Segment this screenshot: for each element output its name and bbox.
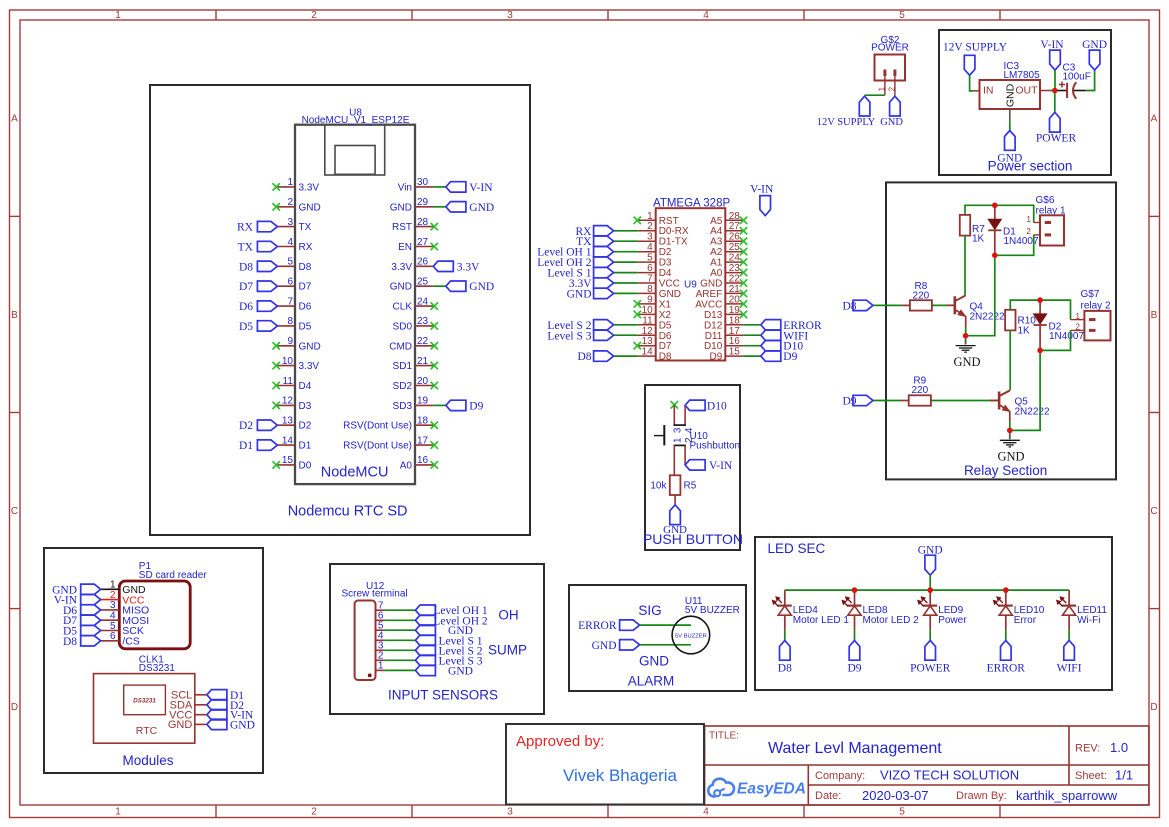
svg-text:1N4007: 1N4007 — [1049, 331, 1084, 342]
svg-text:LM7805: LM7805 — [1004, 70, 1041, 81]
svg-text:2: 2 — [647, 221, 653, 232]
svg-text:1: 1 — [115, 10, 121, 21]
diode D1 1N4007 — [988, 205, 1039, 255]
svg-text:EN: EN — [398, 242, 412, 253]
svg-text:Vivek Bhageria: Vivek Bhageria — [563, 766, 678, 785]
svg-text:3.3V: 3.3V — [299, 361, 320, 372]
resistor R8 220 — [902, 281, 932, 311]
U9 pin 1 RST — [638, 211, 679, 227]
approved by box — [506, 724, 704, 805]
U8 pin 15 D0 — [277, 455, 311, 471]
svg-text:PUSH BUTTON: PUSH BUTTON — [643, 531, 743, 547]
no-connect U9 pin 27 — [740, 227, 747, 234]
svg-text:17: 17 — [729, 326, 741, 337]
svg-text:GND: GND — [1082, 39, 1107, 51]
svg-text:GND: GND — [700, 279, 722, 290]
net flag WIFI (U9 pin 17) — [761, 330, 809, 342]
svg-text:GND: GND — [639, 653, 669, 668]
svg-text:SD2: SD2 — [393, 381, 413, 392]
svg-text:Nodemcu RTC SD: Nodemcu RTC SD — [288, 504, 408, 520]
section box LED SEC — [755, 537, 1112, 690]
wire U12 pin 1 — [384, 669, 415, 671]
svg-text:GND: GND — [448, 665, 473, 677]
svg-text:D9: D9 — [469, 400, 483, 412]
net flag GND (CLK1 GND) — [207, 719, 255, 731]
transistor Q4 2N2222 — [955, 296, 1005, 323]
svg-text:RSV(Dont Use): RSV(Dont Use) — [343, 421, 412, 432]
wire U9 pin 15 — [743, 355, 761, 357]
svg-text:5: 5 — [647, 253, 653, 264]
svg-text:CMD: CMD — [389, 341, 412, 352]
svg-text:2: 2 — [1076, 323, 1081, 332]
no-connect U10 pin 3 — [671, 401, 678, 408]
caption ALARM — [628, 674, 675, 689]
svg-text:R5: R5 — [684, 480, 697, 491]
wire U12 pin 3 — [384, 649, 415, 651]
svg-text:D7: D7 — [299, 282, 312, 293]
junction Q5 emitter node — [1007, 428, 1013, 434]
svg-text:13: 13 — [282, 416, 294, 427]
U9 pin 13 D7 — [638, 336, 672, 352]
svg-text:GND: GND — [997, 450, 1024, 464]
svg-text:AREF: AREF — [696, 289, 723, 300]
svg-text:GND: GND — [168, 719, 193, 731]
net port GND (push button) — [663, 505, 687, 536]
wire R7 to Q4 collector — [964, 236, 967, 296]
svg-text:Motor LED 2: Motor LED 2 — [863, 615, 920, 626]
svg-text:28: 28 — [417, 217, 429, 228]
wire U8 pin 30 — [433, 186, 446, 188]
svg-text:Level S 3: Level S 3 — [547, 330, 591, 342]
svg-text:D8: D8 — [659, 352, 672, 363]
svg-text:RST: RST — [659, 216, 679, 227]
U8 pin 19 SD3 — [393, 396, 434, 412]
svg-text:2: 2 — [287, 197, 293, 208]
svg-text:1: 1 — [1027, 215, 1032, 224]
svg-text:11: 11 — [283, 376, 294, 387]
no-connect U9 pin 19 — [740, 311, 747, 318]
svg-text:100uF: 100uF — [1063, 72, 1091, 83]
svg-text:VCC: VCC — [659, 279, 680, 290]
wire U9 pin 6 — [614, 272, 638, 274]
net flag RX (U9 pin 2) — [576, 226, 614, 238]
svg-text:GND: GND — [299, 341, 321, 352]
label SIG — [638, 603, 661, 618]
U8 pin 8 D5 — [277, 316, 311, 332]
U8 pin 11 D4 — [277, 376, 311, 392]
U9 pin 26 A3 — [710, 232, 743, 248]
svg-text:D10: D10 — [704, 341, 723, 352]
wire relay2 top node — [1010, 300, 1070, 320]
net flag GND (P1 pin 1) — [52, 584, 101, 596]
net flag D8 (U9 pin 14) — [577, 351, 613, 363]
net flag Level OH 2 (U9 pin 5) — [537, 257, 613, 269]
ground symbol (Q4 emitter) — [953, 336, 980, 369]
svg-text:2: 2 — [1027, 227, 1032, 236]
U9 pin 10 X2 — [638, 305, 672, 321]
svg-text:9: 9 — [287, 336, 293, 347]
wire U8 pin 19 — [433, 404, 446, 406]
resistor R5 10k — [650, 475, 696, 505]
svg-text:1: 1 — [673, 437, 684, 443]
U9 pin 17 D11 — [705, 326, 744, 342]
svg-text:15: 15 — [282, 455, 294, 466]
section box Modules — [44, 548, 263, 773]
svg-text:D5: D5 — [239, 321, 253, 333]
diode D2 1N4007 — [1034, 300, 1085, 350]
svg-text:SD0: SD0 — [393, 321, 413, 332]
svg-text:1: 1 — [647, 211, 653, 222]
svg-text:LED SEC: LED SEC — [768, 541, 826, 556]
U12 pin 6 — [376, 611, 385, 622]
svg-text:D9: D9 — [842, 396, 856, 408]
net flag V-IN (P1 pin 2) — [54, 594, 101, 606]
svg-text:A: A — [1151, 114, 1158, 125]
net flag ERROR (led) — [987, 640, 1026, 674]
P1 pin 5 SCK — [101, 621, 144, 637]
net flag Level OH 1 (U9 pin 4) — [537, 247, 613, 259]
screw terminal U12 — [342, 581, 408, 680]
wire IC3 OUT node — [1050, 90, 1055, 92]
no-connect U9 pin 13 — [634, 342, 641, 349]
svg-text:B: B — [11, 310, 18, 321]
wire LED9 to flag — [929, 630, 931, 640]
wire LED4 to flag — [784, 630, 786, 640]
junction led bus — [927, 587, 933, 593]
svg-text:8: 8 — [647, 284, 653, 295]
svg-text:28: 28 — [729, 211, 741, 222]
net flag D9 (led) — [847, 640, 861, 674]
U8 pin 13 D2 — [277, 416, 311, 432]
no-connect U9 pin 9 — [634, 300, 641, 307]
svg-text:D1-TX: D1-TX — [659, 237, 688, 248]
svg-text:A0: A0 — [400, 460, 413, 471]
net port V-IN (floating above U9) — [750, 184, 774, 216]
wire relay1 top node — [965, 205, 1034, 222]
net flag Level OH 1 (U12 pin 7) — [415, 605, 487, 617]
svg-text:D8: D8 — [577, 351, 591, 363]
svg-text:23: 23 — [417, 316, 429, 327]
no-connect U8 pin 1 — [273, 183, 280, 190]
net flag V-IN (CLK1 VCC) — [207, 710, 254, 722]
svg-text:26: 26 — [417, 257, 429, 268]
section box Nodemcu RTC SD — [150, 85, 530, 535]
svg-text:D4: D4 — [659, 268, 672, 279]
net flag RX (U8 pin 3) — [237, 221, 277, 233]
svg-text:1.0: 1.0 — [1110, 740, 1128, 755]
svg-text:TX: TX — [238, 242, 254, 254]
wire 12V SUPPLY to IC3 IN — [970, 75, 973, 91]
net flag D5 (P1 pin 5) — [63, 625, 101, 637]
U9 pin 3 D1-TX — [638, 232, 688, 248]
net flag TX (U8 pin 4) — [238, 241, 278, 253]
U9 pin 18 D12 — [704, 315, 743, 331]
svg-text:D0: D0 — [299, 460, 312, 471]
net flag Level S 1 (U12 pin 4) — [415, 635, 482, 647]
U8 pin 12 D3 — [277, 396, 311, 412]
net port GND (G$2 pin 2) — [880, 96, 903, 128]
wire U9 pin 16 — [743, 345, 761, 347]
svg-text:GND: GND — [469, 202, 494, 214]
net flag Level OH 2 (U12 pin 6) — [415, 615, 487, 627]
net flag GND (U12 pin 5) — [415, 625, 473, 637]
svg-text:karthik_sparroww: karthik_sparroww — [1016, 788, 1118, 803]
svg-text:3: 3 — [647, 232, 653, 243]
svg-text:DS3231: DS3231 — [139, 663, 176, 674]
no-connect U9 pin 24 — [740, 258, 747, 265]
U9 pin 15 D9 — [710, 347, 744, 363]
wire Q4 emitter — [965, 316, 967, 336]
svg-text:SUMP: SUMP — [488, 643, 527, 658]
net port V-IN (power section) — [1040, 39, 1064, 70]
U8 pin 28 RST — [392, 217, 433, 233]
svg-text:10: 10 — [642, 305, 654, 316]
wire Q4 base to R8 — [932, 304, 955, 306]
svg-text:POWER: POWER — [871, 43, 909, 54]
net flag GND (U9 pin 8) — [567, 288, 614, 300]
junction led bus — [1003, 587, 1009, 593]
net port 12V SUPPLY (power section) — [943, 42, 1008, 76]
svg-text:1: 1 — [287, 177, 293, 188]
svg-text:D9: D9 — [783, 351, 797, 363]
net port 12V SUPPLY — [817, 96, 876, 128]
net flag GND (U8 pin 29) — [446, 202, 494, 214]
wire D1 bottom to Q4 emitter node — [966, 255, 995, 335]
svg-text:D9: D9 — [710, 352, 723, 363]
svg-text:Approved by:: Approved by: — [516, 733, 604, 750]
net flag D8 (U8 pin 5) — [239, 261, 277, 273]
net port GND (led sec) — [918, 545, 943, 576]
no-connect U8 pin 2 — [273, 203, 280, 210]
svg-text:A0: A0 — [710, 268, 723, 279]
svg-text:1K: 1K — [972, 234, 985, 245]
U9 pin 14 D8 — [638, 347, 672, 363]
svg-text:REV:: REV: — [1075, 742, 1100, 754]
svg-text:GND: GND — [1005, 83, 1017, 107]
no-connect U8 pin 18 — [431, 422, 438, 429]
svg-text:Wi-Fi: Wi-Fi — [1077, 615, 1100, 626]
U9 pin 6 D4 — [638, 263, 672, 279]
IC U9 ATMEGA 328P — [653, 198, 730, 361]
net flag WIFI (led) — [1057, 640, 1082, 674]
svg-text:V-IN: V-IN — [469, 182, 493, 194]
label GND (alarm) — [639, 653, 669, 668]
svg-text:Drawn By:: Drawn By: — [956, 790, 1007, 802]
svg-text:X1: X1 — [659, 299, 672, 310]
svg-text:5V BUZZER: 5V BUZZER — [685, 605, 740, 616]
svg-text:INPUT SENSORS: INPUT SENSORS — [388, 688, 498, 703]
net flag D2 (CLK1 SDA) — [207, 700, 244, 712]
svg-text:D7: D7 — [659, 341, 672, 352]
wire U12 pin 4 — [384, 639, 415, 641]
wire U9 pin 4 — [614, 251, 638, 253]
svg-text:2: 2 — [311, 10, 317, 21]
svg-text:Date:: Date: — [815, 790, 841, 802]
caption Relay Section — [964, 463, 1047, 478]
svg-text:Pushbutton: Pushbutton — [690, 440, 741, 451]
no-connect U9 pin 23 — [740, 269, 747, 276]
svg-text:Motor LED 1: Motor LED 1 — [793, 615, 850, 626]
no-connect U8 pin 9 — [273, 342, 280, 349]
svg-text:D7: D7 — [239, 281, 253, 293]
U9 pin 20 AVCC — [695, 294, 743, 310]
net flag GND (U8 pin 25) — [446, 281, 494, 293]
svg-text:24: 24 — [729, 253, 741, 264]
U8 pin 4 RX — [277, 237, 312, 253]
svg-text:5V BUZZER: 5V BUZZER — [675, 633, 707, 639]
svg-text:7: 7 — [647, 274, 653, 285]
junction Q4 emitter node — [963, 333, 969, 339]
U8 pin 3 TX — [277, 217, 311, 233]
net flag V-IN (U10 pin 2) — [685, 460, 733, 472]
svg-text:11: 11 — [642, 315, 653, 326]
svg-text:Vin: Vin — [398, 182, 412, 193]
net flag D2 (U8 pin 13) — [239, 420, 277, 432]
junction D2 bottom — [1037, 348, 1043, 354]
wire GND to buzzer — [640, 644, 691, 646]
svg-text:D8: D8 — [778, 663, 792, 675]
U9 pin 25 A2 — [710, 242, 743, 258]
svg-text:12: 12 — [282, 396, 294, 407]
svg-text:D11: D11 — [705, 331, 723, 342]
caption Power section — [988, 159, 1073, 174]
U8 pin 10 3.3V — [277, 356, 319, 372]
svg-text:1: 1 — [115, 806, 121, 817]
svg-text:GND: GND — [230, 719, 255, 731]
svg-text:GND: GND — [592, 640, 617, 652]
no-connect U8 pin 10 — [273, 362, 280, 369]
section box Power section — [939, 30, 1111, 175]
svg-text:NodeMCU_V1_ESP12E: NodeMCU_V1_ESP12E — [302, 115, 410, 126]
svg-text:D6: D6 — [299, 302, 312, 313]
svg-text:RTC: RTC — [136, 725, 158, 737]
net flag ERROR (buzzer) — [578, 620, 639, 632]
net flag D9 (U9 pin 15) — [761, 351, 798, 363]
svg-text:D5: D5 — [659, 320, 672, 331]
svg-text:VIZO TECH SOLUTION: VIZO TECH SOLUTION — [880, 768, 1019, 783]
junction D1 top — [992, 203, 998, 209]
svg-text:RX: RX — [299, 242, 313, 253]
wire OUT node to POWER — [1054, 91, 1056, 113]
U9 pin 8 GND — [638, 284, 681, 300]
no-connect U8 pin 23 — [431, 322, 438, 329]
svg-text:GND: GND — [880, 117, 903, 128]
svg-text:GND: GND — [390, 282, 412, 293]
U8 pin 23 SD0 — [393, 316, 434, 332]
svg-text:D8: D8 — [239, 261, 253, 273]
svg-text:17: 17 — [417, 435, 429, 446]
U8 pin 1 3.3V — [277, 177, 319, 193]
regulator IC3 LM7805 — [973, 61, 1050, 120]
U8 pin 30 Vin — [398, 177, 434, 193]
caption INPUT SENSORS — [388, 688, 498, 703]
net flag POWER (led) — [910, 640, 951, 674]
svg-text:GND: GND — [659, 289, 681, 300]
wire D2 bottom to relay2 pin 2 — [1040, 330, 1070, 350]
svg-text:D2: D2 — [659, 247, 672, 258]
svg-text:Error: Error — [1014, 615, 1037, 626]
wire U9 pin 5 — [614, 261, 638, 263]
svg-text:C: C — [1150, 506, 1157, 517]
U8 pin 27 EN — [398, 237, 433, 253]
wire U12 pin 5 — [384, 629, 415, 631]
U8 pin 9 GND — [277, 336, 320, 352]
transistor Q5 2N2222 — [999, 390, 1050, 417]
svg-text:1/1: 1/1 — [1115, 768, 1133, 783]
label LED SEC — [768, 541, 826, 556]
CLK1 pin SDA — [170, 700, 207, 712]
svg-text:D: D — [1150, 702, 1157, 713]
svg-text:12: 12 — [642, 326, 654, 337]
svg-text:TITLE:: TITLE: — [709, 731, 739, 742]
U8 pin 7 D6 — [277, 296, 311, 312]
svg-text:220: 220 — [913, 290, 930, 301]
svg-text:6: 6 — [287, 277, 293, 288]
no-connect U8 pin 20 — [431, 382, 438, 389]
net flag D6 (P1 pin 3) — [63, 605, 101, 617]
svg-text:8: 8 — [287, 316, 293, 327]
svg-text:Power section: Power section — [988, 159, 1073, 174]
U9 pin 21 AREF — [696, 284, 744, 300]
svg-text:16: 16 — [729, 336, 741, 347]
svg-text:27: 27 — [417, 237, 429, 248]
svg-text:D9: D9 — [847, 663, 861, 675]
svg-text:12V SUPPLY: 12V SUPPLY — [817, 117, 876, 128]
svg-text:D3: D3 — [299, 401, 312, 412]
svg-text:GND: GND — [299, 202, 321, 213]
svg-text:18: 18 — [417, 416, 429, 427]
no-connect U8 pin 22 — [431, 342, 438, 349]
relay G$7 relay 2 — [1071, 289, 1111, 340]
P1 pin 1 GND — [101, 580, 146, 596]
svg-text:2: 2 — [888, 86, 897, 91]
section box PUSH BUTTON — [645, 385, 740, 550]
U8 pin 2 GND — [277, 197, 320, 213]
svg-text:2: 2 — [311, 806, 317, 817]
svg-text:5: 5 — [287, 257, 293, 268]
wire IC3 GND pin — [1009, 120, 1011, 130]
svg-text:D5: D5 — [299, 321, 312, 332]
no-connect U8 pin 28 — [431, 223, 438, 230]
svg-text:7: 7 — [287, 296, 293, 307]
net flag D8 (relay1 input) — [842, 300, 873, 312]
label NodeMCU — [321, 464, 389, 480]
U12 pin 4 — [376, 631, 385, 642]
svg-text:GND: GND — [469, 281, 494, 293]
svg-text:3: 3 — [507, 806, 513, 817]
svg-text:25: 25 — [417, 277, 429, 288]
U12 pin 1 — [376, 661, 385, 672]
svg-text:WIFI: WIFI — [1057, 663, 1082, 675]
relay G$6 relay 1 — [1027, 195, 1066, 245]
svg-text:23: 23 — [729, 263, 741, 274]
wire G$2 pin 1 to 12V SUPPLY — [865, 94, 885, 96]
caption Nodemcu RTC SD — [288, 504, 408, 520]
no-connect U9 pin 21 — [740, 290, 747, 297]
U8 pin 22 CMD — [389, 336, 433, 352]
svg-text:SD3: SD3 — [393, 401, 413, 412]
label OH — [498, 608, 518, 623]
U8 pin 17 RSV(Dont Use) — [343, 435, 433, 451]
P1 pin 2 VCC — [101, 590, 145, 606]
U8 pin 6 D7 — [277, 277, 311, 293]
svg-text:3.3V: 3.3V — [457, 261, 480, 273]
U9 pin 28 A5 — [710, 211, 743, 227]
svg-text:IN: IN — [983, 85, 994, 97]
wire V-IN to OUT node — [1054, 70, 1056, 90]
U9 pin 9 X1 — [638, 294, 672, 310]
svg-text:3.3V: 3.3V — [391, 262, 412, 273]
